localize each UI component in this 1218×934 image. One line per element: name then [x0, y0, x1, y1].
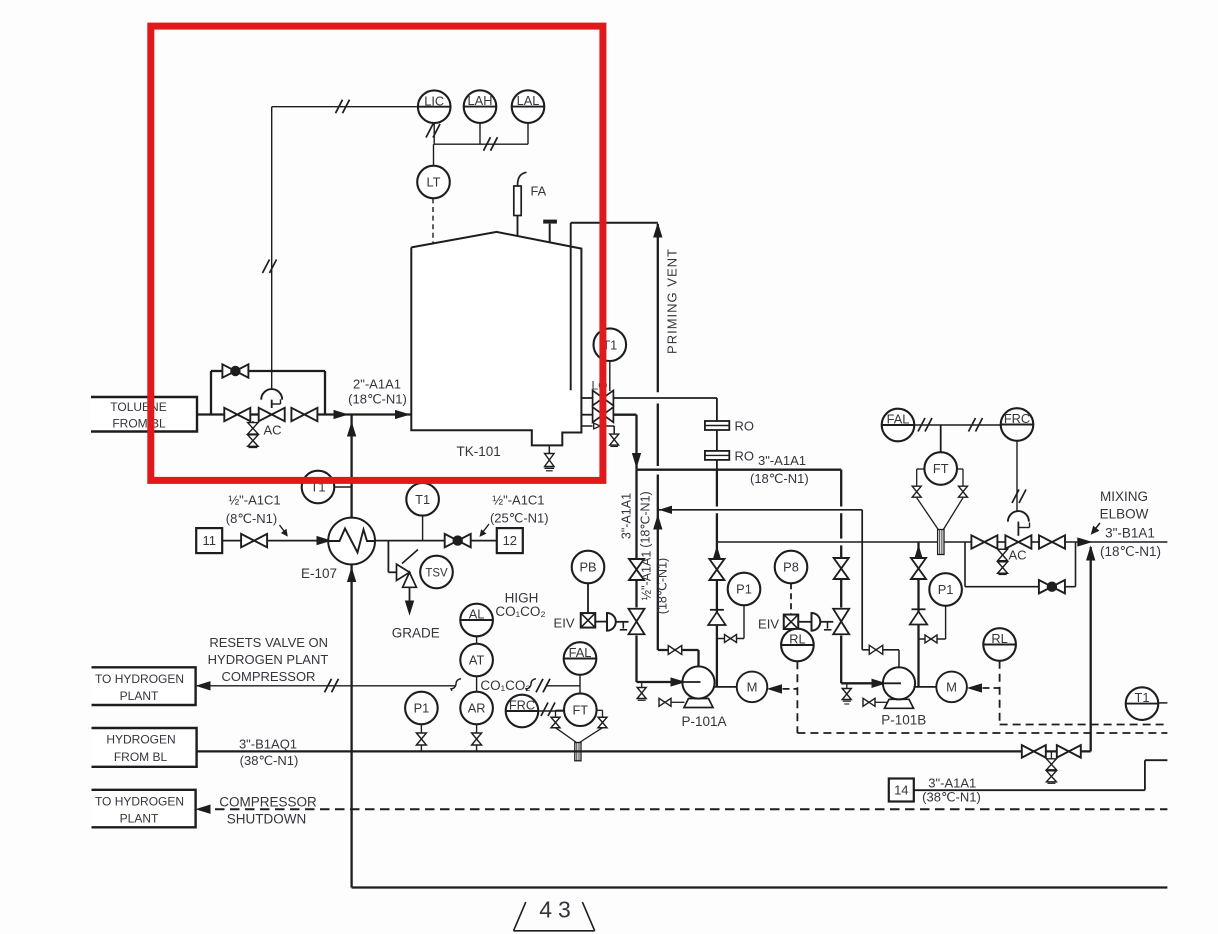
svg-text:HYDROGEN: HYDROGEN — [106, 733, 175, 747]
svg-text:HYDROGEN PLANT: HYDROGEN PLANT — [208, 652, 329, 667]
svg-text:TO HYDROGEN: TO HYDROGEN — [95, 672, 184, 686]
wire LT capillary dashed — [432, 198, 434, 429]
svg-text:P1: P1 — [736, 582, 752, 597]
instrument TSV — [420, 556, 453, 589]
motor M pump B — [936, 672, 967, 703]
svg-text:½"-A1C1: ½"-A1C1 — [492, 492, 544, 507]
svg-text:AL: AL — [469, 607, 485, 622]
check valve discharge B — [910, 612, 928, 625]
svg-text:(8℃-N1): (8℃-N1) — [226, 511, 277, 526]
wire T1 stub — [422, 516, 424, 541]
instrument FT toluene — [924, 452, 957, 485]
instrument P8 — [775, 551, 808, 584]
wire bypass line — [210, 371, 212, 415]
valve gate upstream AC — [971, 535, 984, 548]
label MIXING ELBOW with pointer — [1094, 523, 1100, 531]
valve gate downstream AC — [1039, 535, 1052, 548]
svg-text:(18℃-N1): (18℃-N1) — [750, 471, 809, 486]
wire suction downcomer — [613, 414, 636, 416]
wire suction into pump A — [635, 636, 637, 683]
wire FRC to control valve — [1016, 441, 1018, 513]
instrument LIC — [418, 90, 451, 123]
wire priming line to pump A — [658, 649, 699, 651]
svg-text:FAL: FAL — [887, 412, 910, 427]
wire pump B to motor — [914, 686, 937, 688]
svg-text:P-101B: P-101B — [881, 713, 926, 728]
instrument PB — [572, 551, 605, 584]
wire P1 tap — [743, 605, 745, 638]
wire AR sample tap — [476, 724, 478, 751]
instrument T1 tank — [594, 328, 627, 361]
wire LAH drop — [479, 123, 481, 144]
svg-text:COMPRESSOR: COMPRESSOR — [219, 795, 317, 810]
drain valves between hydrogen gates — [1050, 751, 1052, 758]
valve gate hydrogen 1 — [1022, 745, 1034, 758]
wire pump B suction drop — [840, 470, 842, 507]
valve gate suction A — [629, 559, 644, 570]
instrument P1 pump A — [728, 573, 761, 606]
wire signal continues — [526, 679, 536, 691]
wire FAL to FRC signal — [914, 424, 1000, 426]
relief valve TSV angle — [397, 564, 410, 580]
wire T1 stub — [609, 361, 611, 391]
drain valve suction A — [641, 682, 643, 688]
wire hydrogen riser to mixing elbow — [1090, 547, 1092, 751]
svg-text:P1: P1 — [414, 701, 430, 716]
valve gate inlet V1 — [224, 408, 237, 421]
instrument AR — [460, 692, 493, 725]
connector box 14 — [889, 779, 914, 802]
wire TSV branch — [387, 541, 389, 573]
motor M pump A — [737, 672, 768, 703]
svg-text:2"-A1A1: 2"-A1A1 — [353, 377, 401, 392]
svg-text:T1: T1 — [1135, 690, 1150, 705]
svg-text:LT: LT — [427, 175, 441, 190]
svg-text:TO HYDROGEN: TO HYDROGEN — [95, 795, 184, 809]
svg-text:PLANT: PLANT — [120, 812, 159, 826]
wire LIC signal vertical to control valve — [271, 107, 273, 390]
svg-text:TK-101: TK-101 — [456, 444, 500, 459]
drain valve suction B — [846, 683, 848, 688]
page connector 43 — [514, 902, 526, 931]
valve gate outlet V2 — [291, 408, 304, 421]
wire PB to EIV solenoid — [587, 583, 589, 612]
svg-text:COMPRESSOR: COMPRESSOR — [222, 669, 316, 684]
wire P8 dashed to solenoid — [790, 583, 792, 614]
wire suction into pump B — [840, 636, 842, 684]
valve gate suction B — [834, 558, 849, 569]
wire to 12 — [471, 540, 497, 542]
svg-text:SHUTDOWN: SHUTDOWN — [227, 812, 307, 827]
svg-text:LIC: LIC — [424, 93, 444, 108]
svg-text:3"-B1A1: 3"-B1A1 — [1105, 526, 1155, 541]
valve globe outlet — [445, 534, 458, 547]
wire FT drop — [940, 425, 942, 452]
svg-text:RL: RL — [789, 632, 805, 647]
wire from 11 — [222, 540, 241, 542]
svg-text:12: 12 — [503, 533, 517, 548]
control valve AC with actuator — [1008, 511, 1029, 522]
wire — [840, 578, 842, 608]
wire FT taps — [917, 468, 925, 470]
svg-text:LAH: LAH — [468, 93, 493, 108]
pump P-101B — [885, 699, 914, 708]
instrument FAL toluene — [882, 409, 915, 442]
svg-text:T1: T1 — [415, 492, 430, 507]
svg-text:AT: AT — [469, 653, 485, 668]
restriction orifice RO lower — [705, 451, 729, 460]
svg-text:RL: RL — [991, 631, 1007, 646]
instrument RL pump A — [781, 629, 814, 662]
wire into E-107 — [267, 540, 329, 542]
svg-text:P-101A: P-101A — [681, 714, 726, 729]
instrument T1 far right — [1126, 687, 1159, 720]
orifice plate hydrogen flow — [575, 743, 581, 761]
svg-text:(38℃-N1): (38℃-N1) — [240, 753, 299, 768]
valve gate hydrogen 2 — [1057, 745, 1069, 758]
connector box 11 — [196, 528, 222, 553]
svg-text:(25℃-N1): (25℃-N1) — [490, 511, 549, 526]
orifice plate toluene flow — [938, 530, 944, 555]
valve EIV B actuated — [833, 609, 849, 622]
wire P1 tap B — [945, 606, 947, 639]
wire LIC drop — [433, 123, 435, 144]
svg-text:(18℃-N1): (18℃-N1) — [1100, 544, 1161, 559]
svg-text:EIV: EIV — [758, 617, 779, 632]
svg-text:3"-A1A1: 3"-A1A1 — [758, 453, 806, 468]
svg-text:LAL: LAL — [517, 93, 540, 108]
svg-text:CO₁CO₂: CO₁CO₂ — [480, 678, 530, 693]
wire — [635, 580, 637, 608]
drain valve AC station — [1002, 548, 1004, 551]
svg-text:FA: FA — [531, 184, 547, 199]
svg-text:FT: FT — [933, 461, 949, 476]
svg-text:FRC: FRC — [509, 698, 535, 713]
svg-text:P8: P8 — [783, 560, 799, 575]
instrument FRC hydrogen — [506, 695, 539, 728]
control valve LV with diaphragm actuator — [259, 408, 272, 421]
wire AT-AR — [476, 676, 478, 692]
svg-text:11: 11 — [202, 533, 216, 548]
tank drain valve — [548, 445, 550, 454]
wire from 14 to edge — [914, 789, 1145, 791]
svg-text:M: M — [946, 679, 957, 694]
svg-text:½"-A1C1: ½"-A1C1 — [228, 493, 280, 508]
wire P1 tap — [420, 724, 422, 751]
svg-text:CO₁CO₂: CO₁CO₂ — [495, 604, 545, 619]
wire compressor reset signal — [197, 685, 456, 687]
instrument T1 E-107 outlet — [406, 483, 439, 516]
svg-text:(18℃-N1): (18℃-N1) — [348, 392, 407, 407]
wire RL B dashed interlock — [999, 661, 1001, 725]
svg-text:TSV: TSV — [425, 568, 448, 580]
svg-text:(18℃-N1): (18℃-N1) — [656, 558, 670, 614]
wire pump A suction drop — [635, 470, 637, 559]
check valve discharge A — [708, 612, 726, 625]
highlight red rectangle — [151, 26, 603, 480]
valve globe AC bypass — [1039, 580, 1052, 593]
wire feed to tank with flow arrows — [318, 413, 412, 415]
svg-text:PB: PB — [579, 560, 596, 575]
valve EIV A actuated — [629, 609, 645, 622]
wire internal feed dip dashed — [414, 416, 433, 431]
svg-text:AC: AC — [1008, 548, 1026, 563]
svg-text:TOLUENE: TOLUENE — [110, 400, 166, 414]
wire pump B discharge riser — [917, 542, 919, 687]
valve gate discharge B — [911, 558, 926, 569]
wire AC bypass — [964, 542, 966, 587]
wire priming vent riser — [657, 224, 659, 392]
wire recycle downcomer — [716, 398, 718, 470]
instrument AL — [460, 604, 493, 637]
wire E-107 outlet — [375, 540, 445, 542]
drain valve AC double — [252, 421, 254, 423]
wire LIC signal horizontal — [272, 106, 418, 108]
pump P-101A — [684, 699, 713, 708]
wire RL A dashed interlock — [796, 661, 798, 733]
instrument P1 pump B — [929, 573, 962, 606]
instrument LAH — [464, 90, 497, 123]
svg-text:PRIMING VENT: PRIMING VENT — [665, 248, 680, 354]
drain valve pump B casing — [863, 698, 869, 706]
svg-text:AC: AC — [263, 423, 281, 438]
instrument LAL — [512, 90, 545, 123]
wire tank top to priming vent — [571, 222, 658, 224]
valve globe bypass — [222, 364, 235, 377]
svg-text:RO: RO — [735, 448, 755, 463]
instrument LT — [417, 166, 450, 199]
heat exchanger E-107 — [328, 518, 375, 565]
instrument T1 E-107 inlet — [302, 471, 335, 504]
tank internal dip tube — [570, 223, 572, 390]
svg-text:ELBOW: ELBOW — [1100, 507, 1149, 522]
instrument FT hydrogen — [564, 693, 597, 726]
label TOLUENE FROM BL box — [91, 397, 197, 432]
wire into pump A casing — [697, 650, 699, 667]
wire into pump B casing — [898, 650, 900, 668]
svg-text:FRC: FRC — [1004, 411, 1030, 426]
instrument P1 hydrogen — [405, 692, 438, 725]
wire T1 chord extension — [1158, 702, 1167, 704]
wire toluene to E-107 riser — [350, 415, 352, 518]
svg-text:3"-B1AQ1: 3"-B1AQ1 — [239, 736, 297, 751]
wire T1 stub — [334, 486, 351, 488]
svg-text:3"-A1A1: 3"-A1A1 — [620, 493, 634, 539]
valve gate discharge A — [709, 559, 724, 570]
svg-text:RO: RO — [735, 419, 755, 434]
svg-text:P1: P1 — [938, 582, 954, 597]
wire E-107 bottom feed — [350, 564, 352, 751]
label TO HYDROGEN PLANT box upper — [92, 667, 196, 705]
wire LAL drop — [527, 123, 529, 144]
wire priming return from pump B — [658, 509, 862, 511]
instrument FAL hydrogen — [564, 642, 597, 675]
connector box 12 — [497, 528, 523, 553]
svg-text:MIXING: MIXING — [1100, 489, 1148, 504]
svg-text:14: 14 — [894, 783, 908, 798]
svg-text:½"-A1A1: ½"-A1A1 — [640, 551, 654, 601]
svg-text:3"-A1A1: 3"-A1A1 — [928, 776, 976, 791]
capped nozzle on tank roof — [549, 224, 551, 243]
valve gate hydrogen feed — [241, 534, 254, 547]
drain valve pump A casing — [659, 698, 665, 706]
tank TK-101 shell — [411, 232, 581, 446]
label TO HYDROGEN PLANT box lower — [92, 790, 196, 828]
wire line down to drawing edge — [350, 751, 352, 887]
svg-text:AR: AR — [468, 701, 486, 716]
tank side nozzle with drain — [581, 425, 592, 427]
solenoid EIV B — [784, 615, 799, 630]
svg-text:EIV: EIV — [554, 616, 575, 631]
wire to LT — [433, 144, 435, 166]
wire FAL to FT — [579, 675, 581, 694]
tank outlet nozzle 1 with LO gate valve — [581, 397, 593, 399]
svg-text:GRADE: GRADE — [392, 626, 440, 641]
svg-text:FAL: FAL — [569, 645, 592, 660]
wire toluene feed line — [197, 413, 224, 415]
flame arrester FA — [517, 216, 519, 236]
wire TSV discharge to grade — [409, 587, 411, 607]
wire suction header 3"-A1A1 — [637, 469, 842, 471]
wire compressor shutdown dashed — [197, 805, 210, 813]
svg-text:E-107: E-107 — [301, 566, 337, 581]
wire FT taps hydrogen — [556, 709, 565, 711]
instrument FRC toluene — [1001, 408, 1034, 441]
svg-text:FROM BL: FROM BL — [112, 417, 166, 431]
wire recycle return line — [613, 397, 717, 399]
valve priming A — [668, 646, 675, 655]
wire FRC to FT signal — [538, 710, 564, 712]
svg-text:(38℃-N1): (38℃-N1) — [922, 790, 981, 805]
restriction orifice RO upper — [705, 421, 729, 430]
svg-text:PLANT: PLANT — [120, 689, 159, 703]
wire — [250, 413, 258, 415]
instrument AT — [460, 644, 493, 677]
svg-text:M: M — [747, 679, 758, 694]
valve priming B — [869, 645, 876, 654]
wire AL-AT — [476, 636, 478, 644]
svg-text:FT: FT — [572, 702, 588, 717]
svg-text:43: 43 — [539, 897, 577, 923]
wire hydrogen main line — [197, 750, 1091, 752]
label HYDROGEN FROM BL box — [92, 728, 197, 767]
tank outlet nozzle 2 with LO gate valve — [581, 414, 593, 416]
solenoid EIV A — [581, 613, 596, 628]
svg-text:RESETS VALVE ON: RESETS VALVE ON — [209, 635, 328, 650]
wire pump A to motor — [713, 686, 737, 688]
svg-text:(18℃-N1): (18℃-N1) — [639, 491, 653, 547]
wire pump A discharge riser — [716, 513, 718, 687]
svg-text:FROM BL: FROM BL — [114, 750, 168, 764]
wire level signal header — [434, 143, 529, 145]
wire discharge header to mixing elbow — [717, 541, 938, 543]
instrument RL pump B — [983, 628, 1016, 661]
